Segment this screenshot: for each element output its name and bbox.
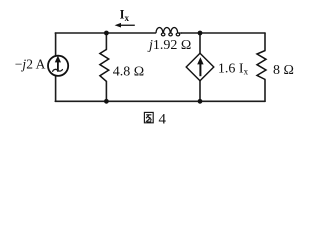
node D bottom-right junction dot (198, 99, 203, 104)
wire left branch bottom (55, 76, 57, 101)
current source I1 tilde (53, 69, 63, 71)
resistor R2 8ohm zigzag (257, 51, 266, 80)
node A top-left junction dot (104, 31, 109, 36)
svg-text:−j2 A: −j2 A (15, 56, 46, 71)
wire bottom rail (55, 100, 265, 102)
wire right branch bottom (264, 80, 266, 102)
inductor L1 coil (156, 27, 182, 35)
node C bottom-left junction dot (104, 99, 109, 104)
wire dependent source branch bottom (199, 81, 201, 102)
current source I1 circle (48, 56, 68, 76)
svg-text:4: 4 (159, 112, 167, 128)
wire middle branch bottom (105, 81, 107, 101)
wire top rail right of inductor (182, 32, 266, 34)
svg-text:j1.92 Ω: j1.92 Ω (147, 38, 191, 53)
current source I1 arrow (55, 56, 61, 72)
dependent source arrow (197, 57, 203, 76)
wire right branch top (264, 33, 266, 51)
arrow Ix direction (115, 23, 135, 28)
dependent source diamond (186, 53, 214, 81)
resistor R1 4.8ohm zigzag (100, 50, 109, 82)
wire dependent source branch top (199, 33, 201, 53)
svg-text:1.6 Ix: 1.6 Ix (218, 61, 249, 76)
wire left branch top (55, 33, 57, 56)
node B top-right junction dot (198, 31, 203, 36)
svg-text:4.8 Ω: 4.8 Ω (113, 64, 144, 79)
caption figure character tu (144, 112, 153, 122)
svg-text:Ix: Ix (120, 7, 130, 23)
wire middle branch top (105, 33, 107, 50)
svg-text:8 Ω: 8 Ω (273, 63, 294, 78)
wire top rail (55, 32, 155, 34)
